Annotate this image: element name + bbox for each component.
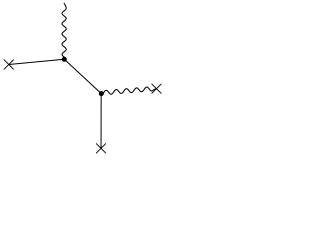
vertex V1 (filled dot)	[62, 57, 67, 62]
fermion line F1 (left cross X1 to vertex V1)	[9, 59, 65, 64]
cross X2 (right external point)	[152, 84, 161, 93]
vertex V2 (filled dot)	[99, 91, 104, 96]
cross X3 (bottom external point)	[96, 144, 105, 153]
fermion propagator F2 (vertex V1 to vertex V2)	[64, 59, 101, 93]
cross X1 (left external point)	[4, 60, 13, 69]
photon wavy line P1 (top, incoming to vertex V1)	[62, 3, 66, 57]
fermion line F3 (vertex V2 down to bottom cross X3)	[100, 94, 102, 149]
photon wavy line P2 (vertex V2 to right cross X2)	[102, 87, 156, 95]
